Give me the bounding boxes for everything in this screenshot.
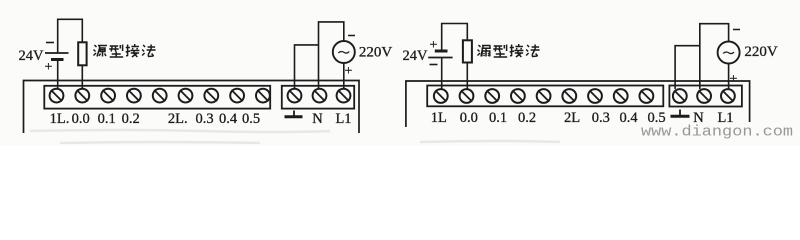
terminal block TB2 (left, ground/N/L1): [282, 86, 354, 109]
wire ground terminal junction (left): [295, 45, 319, 89]
svg-text:0.4: 0.4: [219, 111, 238, 127]
svg-text:N: N: [312, 111, 323, 127]
wire battery bottom to terminal 1L (left): [57, 60, 59, 90]
wire battery top to resistor (right): [442, 24, 468, 50]
PLC module outline (left): [24, 81, 360, 134]
svg-text:0.5: 0.5: [242, 111, 260, 127]
svg-text:0.1: 0.1: [98, 111, 116, 127]
svg-text:0.0: 0.0: [460, 110, 478, 126]
型: [109, 45, 123, 58]
法: [526, 45, 540, 57]
svg-text:1L: 1L: [431, 110, 447, 126]
法: [142, 45, 156, 57]
resistor load (right): [463, 40, 472, 62]
AC source 220V (left): [333, 36, 355, 80]
terminal block TB3 (right, 1L..0.5): [427, 86, 663, 107]
svg-text:0.3: 0.3: [592, 110, 610, 126]
label 漏型接法 (right): [478, 44, 540, 57]
wire battery bottom to terminal 1L (right): [441, 58, 443, 90]
svg-text:0.3: 0.3: [195, 111, 213, 127]
wire battery top to resistor (left): [58, 19, 83, 53]
源: [94, 45, 108, 57]
AC source 220V (right): [718, 30, 740, 88]
resistor load (left): [78, 42, 86, 65]
svg-text:L1: L1: [335, 111, 351, 127]
wire ground terminal junction (right): [675, 46, 700, 89]
svg-text:+: +: [45, 60, 53, 75]
svg-text:+: +: [345, 64, 353, 79]
svg-text:0.2: 0.2: [518, 110, 536, 126]
型: [493, 45, 507, 58]
label 源型接法 (left): [94, 44, 156, 57]
svg-text:1L.: 1L.: [50, 111, 70, 127]
svg-text:24V: 24V: [19, 48, 45, 64]
wire N terminal to AC source top (right): [700, 24, 729, 89]
svg-text:0.0: 0.0: [72, 111, 90, 127]
wire AC source bottom to L1 (right): [728, 64, 730, 90]
svg-text:24V: 24V: [403, 48, 429, 64]
接: [126, 44, 140, 57]
接: [510, 44, 524, 57]
svg-text:2L.: 2L.: [168, 111, 188, 127]
ground symbol (right): [671, 110, 690, 117]
wire resistor bottom to terminal 0.0 (right): [466, 63, 468, 90]
terminal block TB4 (right, ground/N/L1): [669, 86, 742, 107]
svg-text:0.4: 0.4: [619, 110, 638, 126]
paper background tint: [0, 0, 800, 146]
wire resistor bottom to terminal 0.0 (left): [81, 65, 83, 89]
svg-text:+: +: [430, 38, 438, 53]
svg-text:220V: 220V: [744, 44, 778, 60]
svg-text:0.2: 0.2: [122, 111, 140, 127]
battery B2 24V (right): [428, 38, 452, 65]
PLC module outline (right): [406, 81, 750, 127]
svg-text:+: +: [730, 72, 738, 87]
svg-text:220V: 220V: [359, 45, 393, 61]
terminal block TB1 (left, 1L..0.5): [44, 86, 270, 109]
svg-text:www.diangon.com: www.diangon.com: [641, 124, 793, 141]
wire N terminal to AC source top (left): [319, 22, 344, 89]
scan smudges (decorative): [30, 130, 560, 143]
漏: [478, 45, 491, 57]
ground symbol (left): [285, 111, 303, 117]
battery B1 24V (left): [45, 43, 69, 76]
wire AC source bottom to L1 (left): [343, 63, 345, 89]
svg-text:2L: 2L: [564, 110, 580, 126]
svg-text:0.1: 0.1: [489, 110, 507, 126]
